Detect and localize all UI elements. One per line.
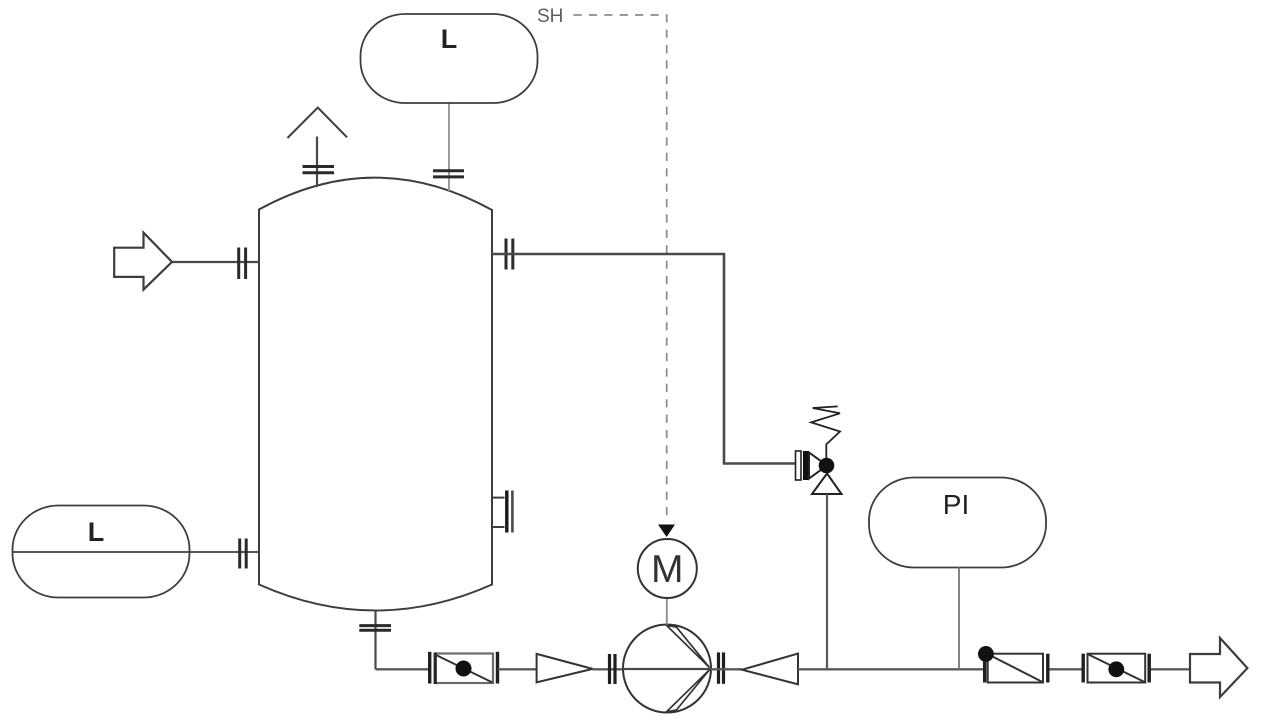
PI connection line (958, 568, 960, 670)
discharge header pipe (798, 668, 983, 670)
bottom nozzle flange (359, 624, 391, 627)
relief valve tail pipe down to discharge header (826, 494, 828, 669)
outlet flow arrow (1190, 638, 1247, 697)
motor M circle (638, 539, 697, 598)
svg-text:M: M (651, 548, 684, 591)
flange bottom left nozzle (238, 539, 241, 569)
pump discharge flange (717, 652, 720, 683)
relief valve bowtie half (809, 453, 827, 479)
pump center line (623, 668, 711, 670)
valve CV2 ball indicator (978, 646, 994, 662)
pipe check valve to reducer (498, 668, 537, 670)
instrument bubble PI (869, 478, 1046, 568)
relief valve PSV flange (796, 451, 802, 480)
inlet flow arrow (114, 233, 172, 290)
check valve CV1 ball (456, 661, 472, 677)
relief valve ball (819, 458, 835, 474)
valve CV2 body (988, 654, 1043, 683)
pump suction flange (608, 654, 611, 684)
instrument bubble LI top (361, 14, 538, 103)
check valve CV1 end bars (428, 652, 431, 684)
motor connector line (666, 598, 668, 625)
pump P1 casing (623, 625, 711, 713)
pump impeller bottom vane (667, 670, 710, 712)
SH dashed signal line (574, 15, 667, 522)
pipe CV3 to outlet arrow (1151, 668, 1190, 670)
svg-text:L: L (441, 24, 458, 54)
vent arrow chevron (288, 108, 348, 139)
svg-text:L: L (88, 517, 105, 547)
svg-text:PI: PI (943, 489, 969, 520)
pipe from right nozzle to relief valve (492, 254, 796, 464)
bottom nozzle line (374, 611, 376, 669)
valve CV2 diagonal (989, 655, 1043, 683)
pump impeller top vane (667, 625, 710, 667)
suction pipe to check valve (376, 668, 430, 670)
inlet flange (237, 248, 240, 280)
vent flange (303, 165, 335, 168)
right top nozzle flange (505, 239, 508, 270)
valve CV3 diagonal (1089, 655, 1145, 683)
relief valve outlet triangle (812, 474, 842, 495)
reducer triangle right (537, 654, 593, 682)
lower right nozzle flange (505, 491, 508, 533)
valve CV3 left end bar (1081, 654, 1084, 683)
pipe CV2 to CV3 (1050, 668, 1082, 670)
vessel V1 shell (259, 178, 492, 611)
flange on top nozzle under L bubble (433, 169, 464, 172)
valve CV3 body (1088, 654, 1146, 683)
signal arrowhead at motor (658, 525, 675, 538)
inlet pipe (172, 261, 259, 263)
pipe reducer to pump (593, 668, 623, 670)
valve CV3 ball (1108, 661, 1124, 677)
connection line bottom L bubble to vessel (13, 551, 259, 553)
check valve CV1 body (435, 654, 494, 684)
lower right nozzle stub (492, 497, 505, 499)
vent nozzle line (316, 137, 318, 188)
pipe pump to expander (711, 668, 742, 670)
relief valve spring (811, 406, 840, 458)
instrument bubble LI bottom (13, 506, 190, 598)
instrument connection line to top L bubble (448, 101, 450, 191)
check valve CV1 diagonal (435, 655, 493, 683)
valve CV3 right end bar (1147, 654, 1150, 683)
svg-text:SH: SH (537, 6, 563, 27)
valve CV2 left end bar (983, 654, 986, 683)
expander triangle left (742, 654, 798, 685)
valve CV2 right end bar (1046, 654, 1049, 683)
